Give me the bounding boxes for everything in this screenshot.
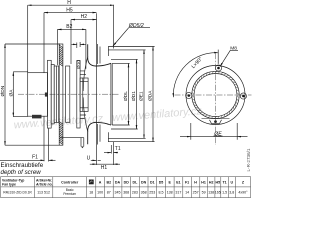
- svg-text:138: 138: [167, 190, 173, 194]
- svg-text:H: H: [67, 0, 71, 6]
- svg-text:14: 14: [185, 190, 189, 194]
- svg-text:H1: H1: [201, 181, 206, 185]
- svg-text:DA: DA: [115, 181, 121, 185]
- svg-text:DL: DL: [133, 181, 139, 185]
- svg-text:ØDN: ØDN: [0, 85, 6, 96]
- svg-text:283: 283: [132, 190, 138, 194]
- svg-text:368: 368: [141, 190, 147, 194]
- svg-text:345: 345: [115, 190, 121, 194]
- svg-text:U: U: [230, 181, 233, 185]
- svg-text:113 512: 113 512: [37, 190, 50, 194]
- svg-text:ØD1: ØD1: [131, 91, 137, 101]
- svg-text:depth of screw: depth of screw: [1, 169, 42, 176]
- svg-text:T1: T1: [222, 181, 226, 185]
- svg-text:U: U: [87, 156, 91, 162]
- svg-text:368: 368: [123, 190, 129, 194]
- svg-text:B2: B2: [66, 24, 72, 30]
- svg-text:H5: H5: [215, 181, 220, 185]
- svg-text:Article no.: Article no.: [35, 182, 53, 186]
- svg-text:165: 165: [215, 190, 221, 194]
- svg-text:M8: M8: [230, 46, 237, 52]
- svg-text:18: 18: [89, 190, 93, 194]
- svg-text:B2: B2: [106, 181, 111, 185]
- svg-text:Controller: Controller: [61, 181, 79, 185]
- svg-text:DN: DN: [141, 181, 147, 185]
- svg-text:H: H: [194, 181, 197, 185]
- svg-text:H5: H5: [66, 7, 73, 13]
- svg-text:Premium: Premium: [63, 192, 76, 196]
- svg-text:L-R-2736/1: L-R-2736/1: [246, 148, 251, 171]
- svg-text:H2: H2: [209, 181, 214, 185]
- svg-text:100: 100: [97, 190, 103, 194]
- svg-text:253: 253: [149, 190, 155, 194]
- svg-text:F1: F1: [185, 181, 189, 185]
- svg-text:F1: F1: [32, 155, 38, 161]
- svg-text:ØE: ØE: [213, 131, 222, 137]
- svg-text:E1: E1: [176, 181, 180, 185]
- svg-text:H2: H2: [81, 14, 88, 20]
- svg-text:59: 59: [202, 190, 206, 194]
- svg-text:ØE1: ØE1: [139, 91, 145, 101]
- svg-text:4x90°: 4x90°: [238, 190, 248, 194]
- svg-text:D5: D5: [159, 181, 164, 185]
- svg-text:A: A: [99, 181, 102, 185]
- svg-text:H1: H1: [101, 165, 108, 171]
- svg-text:257: 257: [193, 190, 199, 194]
- svg-text:D1: D1: [150, 181, 155, 185]
- svg-text:1,5: 1,5: [222, 190, 227, 194]
- svg-text:87: 87: [107, 190, 111, 194]
- svg-text:138: 138: [208, 190, 214, 194]
- svg-text:ØA: ØA: [9, 89, 15, 97]
- svg-text:T1: T1: [115, 146, 121, 152]
- svg-text:Ø10: Ø10: [76, 60, 82, 69]
- svg-text:ØDL: ØDL: [123, 91, 129, 101]
- svg-text:8,5: 8,5: [159, 190, 164, 194]
- svg-text:317: 317: [175, 190, 181, 194]
- svg-text:ØDA: ØDA: [148, 90, 154, 101]
- svg-text:DD: DD: [124, 181, 130, 185]
- svg-text:3,8: 3,8: [229, 190, 234, 194]
- svg-text:Fan type: Fan type: [2, 182, 16, 186]
- svg-text:R4E310-ZID.D0.1R: R4E310-ZID.D0.1R: [3, 190, 32, 194]
